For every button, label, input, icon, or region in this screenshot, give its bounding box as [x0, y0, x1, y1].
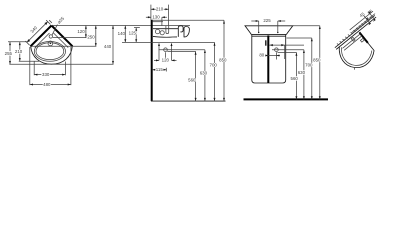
floor line front — [244, 98, 329, 100]
fixing slot left — [351, 37, 355, 41]
bowl inner ellipse — [36, 43, 64, 60]
rotated right back edge thick — [358, 32, 368, 42]
dim 340 arrows — [44, 22, 47, 25]
svg-text:560: 560 — [291, 76, 299, 81]
tap hole slot side — [166, 26, 169, 34]
waste circle front — [275, 48, 279, 52]
wall hatching — [337, 14, 373, 49]
ext basin top right (850 ref) — [293, 25, 320, 27]
floor line side view — [151, 100, 226, 102]
rotated dim line 1 — [363, 15, 372, 24]
svg-text:130: 130 — [152, 14, 160, 19]
svg-text:850: 850 — [219, 57, 227, 62]
waste centerline front — [275, 52, 277, 59]
svg-text:330: 330 — [42, 72, 50, 77]
svg-text:700: 700 — [305, 62, 313, 67]
semi pedestal — [252, 35, 286, 83]
dim 210 left — [19, 42, 21, 61]
corner wall edge front thick — [267, 35, 269, 83]
dim 480 line — [30, 84, 71, 86]
ext line corner level — [32, 45, 97, 47]
svg-text:560: 560 — [188, 78, 196, 83]
drain hole — [48, 41, 53, 46]
pedestal top dim line — [269, 44, 304, 46]
side profile underside — [153, 35, 177, 38]
dim 330 line — [34, 74, 65, 76]
tap hole — [49, 35, 52, 38]
fixing slot right — [360, 38, 364, 42]
svg-text:250: 250 — [87, 34, 95, 39]
svg-text:255: 255 — [5, 51, 13, 56]
dim 560 front — [295, 52, 297, 99]
svg-text:210: 210 — [15, 49, 23, 54]
bowl outer ellipse — [34, 42, 65, 62]
rotated right edge thin continuation — [367, 43, 375, 51]
ext pedestal top right (700 ref) — [287, 37, 312, 39]
waste bottom ext (560 ref) — [167, 50, 195, 52]
overflow circle 1 — [155, 29, 159, 33]
dim 340 ext ticks — [25, 20, 52, 45]
basin underside ext line (700 ref) — [122, 41, 215, 43]
dim 255 — [9, 42, 11, 64]
basin back edge left thick — [31, 26, 52, 47]
waste ext line (630 ref) — [159, 49, 205, 51]
rotated basin outer rim — [337, 47, 374, 69]
rotated left wall band line B — [335, 12, 375, 52]
svg-text:850: 850 — [313, 57, 321, 62]
dim 340 line parallel to left edge — [27, 22, 48, 43]
bottom center tick — [353, 68, 355, 70]
ext line basin front bottom — [9, 63, 113, 65]
overflow circle 2 — [160, 31, 164, 35]
rotated dim line 2 — [368, 12, 377, 21]
top extension line from tip — [52, 25, 191, 27]
svg-text:480: 480 — [43, 82, 51, 87]
dim 850 front — [319, 26, 321, 100]
dim 80 front — [266, 55, 280, 57]
dim 250 plan — [95, 26, 97, 47]
dim 120 below tails — [154, 59, 177, 61]
basin back edge right thick — [52, 26, 73, 47]
basin outer rim front curve — [31, 46, 73, 64]
dim 440 plan — [112, 26, 114, 65]
upper profile line — [153, 21, 163, 23]
dim 560 side — [195, 51, 197, 101]
dim 140 — [124, 26, 126, 43]
dim 480 ext lines — [30, 47, 71, 85]
deck inner line right — [54, 33, 69, 48]
side profile top line — [153, 28, 178, 30]
svg-text:125: 125 — [129, 30, 137, 35]
svg-text:630: 630 — [298, 70, 306, 75]
waste circle side — [164, 48, 168, 52]
svg-text:440: 440 — [104, 44, 112, 49]
rotated deck line 2 — [344, 34, 362, 52]
dim 115 at wall — [152, 68, 166, 72]
dim 850 side — [223, 20, 225, 101]
dim 125 — [135, 28, 137, 43]
rotated ext line offset2 — [350, 9, 373, 32]
svg-text:225: 225 — [263, 18, 271, 23]
rotated left wall band line A — [336, 13, 376, 53]
dim 120 below: ext lines — [159, 44, 172, 61]
dim 210 top line — [151, 8, 169, 10]
wall line — [151, 20, 153, 101]
ext vertical right of corner — [284, 45, 286, 59]
dim 700 front — [311, 38, 313, 99]
rotated basin inner rim — [340, 47, 372, 67]
svg-text:115: 115 — [156, 67, 164, 72]
basin front outline — [245, 26, 293, 35]
dim 130 tails — [146, 16, 167, 18]
svg-text:120: 120 — [77, 29, 85, 34]
rotated ext line offset1 — [352, 11, 375, 34]
side profile rim hook — [178, 26, 183, 37]
tap hole leader line — [52, 25, 57, 36]
dim 210 top ext lines — [151, 5, 169, 26]
dim 120 plan — [85, 26, 87, 38]
dim 700 side — [214, 42, 216, 101]
svg-text:210: 210 — [156, 6, 164, 11]
svg-text:80: 80 — [259, 53, 264, 58]
svg-text:630: 630 — [200, 70, 208, 75]
side profile front overhang hook — [184, 27, 189, 37]
dim 330 ext lines — [34, 62, 65, 76]
deck inner line left — [35, 33, 50, 48]
svg-text:120: 120 — [162, 58, 170, 63]
rim back top ext line (850 ref) — [153, 19, 224, 21]
dim 225 ext lines — [259, 21, 278, 33]
fixing holes front — [258, 32, 259, 33]
ext tick 125 top — [134, 27, 140, 29]
fixing bolt black mark — [265, 40, 266, 45]
dim 630 side — [204, 50, 206, 101]
rotated deck line 1 — [343, 32, 361, 50]
waste center dashes — [165, 52, 167, 58]
svg-text:700: 700 — [210, 63, 218, 68]
dim 225 line — [251, 20, 285, 22]
ext waste center (630 ref) — [272, 49, 304, 51]
ext line bowl front left — [19, 60, 39, 62]
ext line 130 right — [161, 17, 163, 26]
svg-text:140: 140 — [118, 31, 126, 36]
ext waste bottom (560 ref) — [278, 51, 297, 53]
dim 630 front — [303, 50, 305, 100]
ext line below tap hole — [53, 37, 87, 39]
ext line left upper — [8, 41, 28, 43]
